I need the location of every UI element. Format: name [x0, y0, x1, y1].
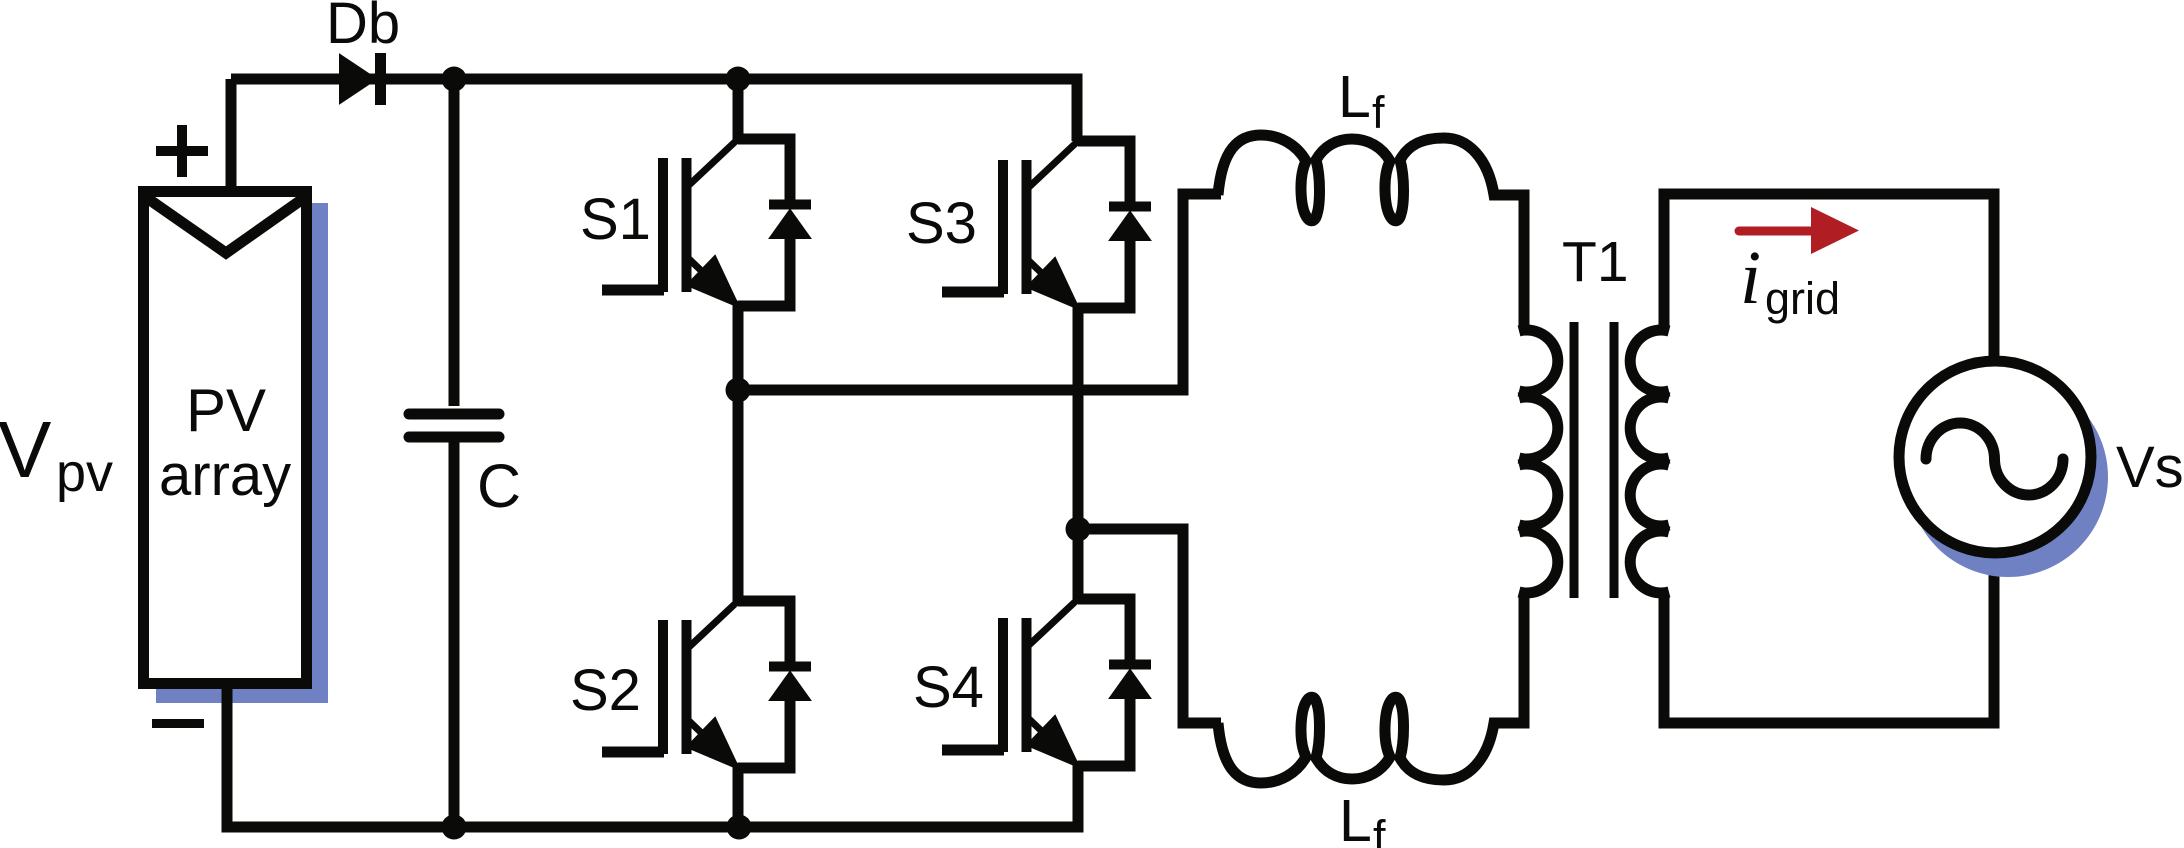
transistor S3 — [942, 141, 1151, 309]
minus terminal label — [152, 719, 204, 728]
PV array box — [144, 192, 307, 684]
AC source Vs circle — [1899, 361, 2091, 553]
node junction output A — [726, 378, 751, 403]
node junction top bus capacitor — [442, 67, 467, 92]
diode Db — [340, 55, 376, 103]
wire left leg midpoint — [733, 306, 744, 601]
svg-text:PV: PV — [186, 377, 266, 444]
wire PV plus to top bus — [226, 79, 237, 188]
svg-text:S2: S2 — [570, 658, 641, 723]
svg-text:array: array — [159, 443, 291, 508]
transistor S2 — [602, 601, 811, 769]
wire bottom bus — [227, 684, 1078, 827]
node junction bottom bus S2 — [727, 815, 752, 840]
transistor S4 — [942, 599, 1151, 767]
plus terminal label — [156, 125, 208, 177]
AC source sine wave — [1926, 423, 2063, 495]
transformer T1 core bar left — [1570, 322, 1579, 598]
svg-text:i: i — [1740, 236, 1761, 320]
wire capacitor bottom — [449, 440, 460, 827]
svg-text:f: f — [1373, 811, 1386, 848]
svg-text:grid: grid — [1765, 273, 1840, 324]
PV array shadow — [156, 203, 328, 703]
svg-text:pv: pv — [56, 443, 113, 503]
igrid arrow — [1739, 227, 1818, 236]
AC source Vs shadow — [1908, 377, 2108, 577]
svg-text:S3: S3 — [906, 191, 977, 256]
inductor Lf bottom coil — [1218, 594, 1524, 783]
wire top bus — [231, 79, 1077, 141]
node junction output B — [1066, 517, 1091, 542]
wire S2 emitter to bottom bus — [733, 768, 744, 827]
svg-text:C: C — [477, 452, 521, 520]
wire secondary top to grid — [1664, 194, 1994, 362]
svg-text:V: V — [0, 405, 52, 494]
capacitor C plates — [409, 414, 499, 437]
wire capacitor top — [449, 79, 460, 406]
node junction top bus S1 — [726, 67, 751, 92]
inductor Lf top coil — [1218, 135, 1524, 327]
svg-text:S4: S4 — [913, 655, 984, 720]
wire bridge output A to top inductor — [738, 194, 1221, 390]
wire secondary bottom to grid — [1664, 552, 1994, 723]
svg-text:S1: S1 — [580, 187, 651, 252]
wire bridge output B to bottom inductor — [1078, 529, 1221, 723]
wire S1 collector drop — [733, 79, 744, 141]
svg-text:T1: T1 — [1562, 230, 1629, 294]
svg-text:Vs: Vs — [2116, 435, 2184, 500]
transistor S1 placement — [602, 139, 811, 307]
PV array chevron — [147, 198, 304, 253]
transformer T1 secondary winding — [1630, 330, 1669, 593]
svg-text:f: f — [1372, 87, 1385, 138]
transformer T1 core bar right — [1610, 322, 1619, 598]
svg-text:Db: Db — [326, 0, 400, 56]
transformer T1 primary winding — [1519, 330, 1558, 593]
node junction bottom bus capacitor — [442, 815, 467, 840]
svg-text:L: L — [1338, 64, 1371, 130]
svg-text:L: L — [1339, 788, 1372, 848]
wire right leg midpoint — [1073, 308, 1084, 599]
